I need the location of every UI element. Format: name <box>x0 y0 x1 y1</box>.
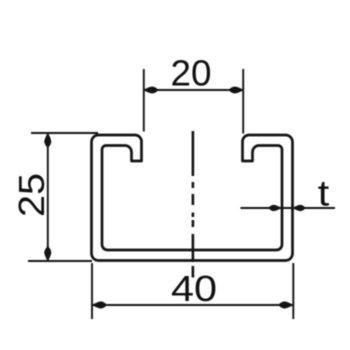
extension line left of 20 <box>143 69 145 132</box>
svg-text:40: 40 <box>171 268 217 309</box>
dimension 25 (left height) <box>28 133 98 261</box>
dimension line 40 <box>92 304 293 306</box>
arrowhead 25 down <box>44 246 51 261</box>
arrowhead 25 up <box>44 133 51 148</box>
extension line right of 20 <box>242 69 244 134</box>
extension line top of 25 <box>31 132 98 134</box>
extension line bottom of 25 <box>28 260 92 262</box>
dimension line 20 <box>144 89 243 91</box>
arrowhead 40 right <box>278 301 293 308</box>
arrowhead 40 left <box>92 301 107 308</box>
leader line t <box>241 207 336 209</box>
channel profile (strut channel cross-section sheet) <box>92 135 293 261</box>
dimension 40 (bottom width) <box>92 263 293 319</box>
arrowhead 20 left <box>144 87 159 94</box>
extension line right of 40 <box>292 263 294 319</box>
svg-text:t: t <box>318 173 330 214</box>
arrowhead t right (points left at outer wall) <box>293 205 306 211</box>
svg-text:20: 20 <box>171 53 212 94</box>
svg-text:25: 25 <box>11 173 52 217</box>
extension line left of 40 <box>91 263 93 319</box>
dimension 20 (top opening width) <box>144 69 243 134</box>
dimension line 25 <box>47 133 49 261</box>
centerline (vertical dash-dot axis) <box>192 131 195 278</box>
dimension t (wall thickness) <box>241 207 336 209</box>
arrowhead t left (points right at inner wall) <box>268 205 281 211</box>
arrowhead 20 right <box>229 87 244 94</box>
